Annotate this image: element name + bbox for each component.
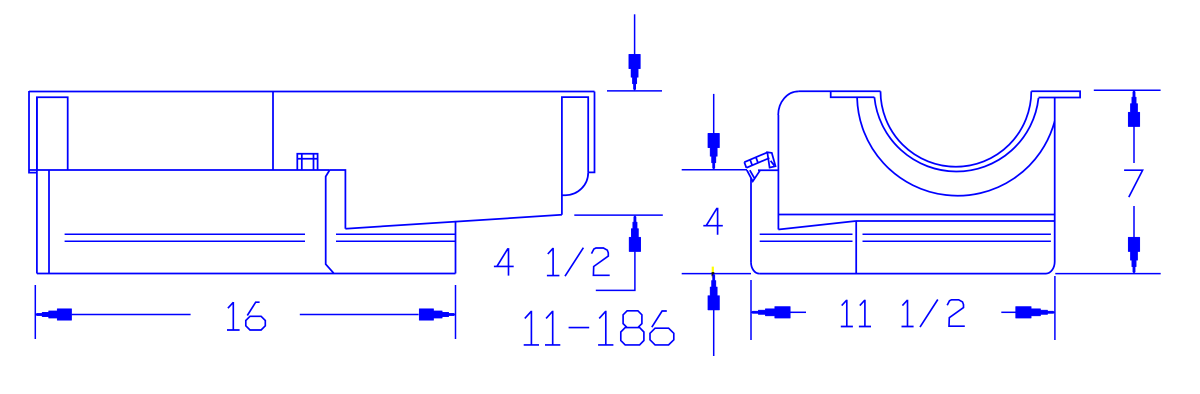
right view: left edge lower xyxy=(750,178,752,262)
dim 4: top leader line xyxy=(713,94,715,134)
left view: left end wall (inner rectangle) xyxy=(37,97,68,170)
right view: rail left lower xyxy=(760,240,853,242)
dim 4: bottom arrow xyxy=(708,274,720,310)
right view: bore arc xyxy=(881,91,1032,166)
dim 4 1/2: text xyxy=(494,248,610,277)
dim 4: bottom leader line xyxy=(713,310,715,357)
dim 16: left extension line xyxy=(34,285,36,339)
left view: sump right wall xyxy=(455,221,457,274)
right view: rim arc xyxy=(874,97,1038,171)
right view: right tab xyxy=(1031,91,1080,97)
dim 7: top arrow xyxy=(1128,91,1140,127)
right view: bottom-left corner arc xyxy=(751,262,759,273)
left view: gasket rail right lower xyxy=(336,240,456,242)
dim 4: top reference line xyxy=(682,169,747,171)
highlight tick yellow xyxy=(712,267,714,278)
left view: flange bottom line xyxy=(29,169,330,171)
dim 16: left arrow xyxy=(36,309,72,321)
highlight tick dark overlap xyxy=(712,272,715,276)
dim 7: bottom arrow xyxy=(1128,237,1140,273)
dim 16: left dimension line xyxy=(72,314,191,316)
left view: right end outer edge xyxy=(588,92,594,173)
dim 4 1/2: top reference line xyxy=(607,90,662,92)
left view: left body wall inner line xyxy=(48,170,50,274)
left view: drain plug on flange xyxy=(297,154,317,170)
right view: drain plug body xyxy=(744,152,769,167)
right view: top flange line left xyxy=(799,90,881,92)
dim 11 1/2: left extension line xyxy=(750,280,752,340)
dim 11 1/2: right extension line xyxy=(1054,276,1056,340)
part number 11-186 text xyxy=(524,311,674,345)
dim 4: bottom reference line xyxy=(682,273,751,275)
left view: right end wall inner rectangle xyxy=(562,97,588,215)
dim 4: top arrow xyxy=(708,133,720,169)
dim 4 1/2: top arrow xyxy=(629,54,641,90)
right view: cradle outer arc xyxy=(857,98,1055,196)
right view: drain plug head xyxy=(767,152,775,167)
dim 7: lower dimension line xyxy=(1133,206,1135,238)
dim 16: right arrow xyxy=(419,309,455,321)
dim 11 1/2: left tail line xyxy=(790,311,806,313)
right view: body divider xyxy=(855,221,857,274)
dim 4 1/2: bottom arrow xyxy=(629,216,641,252)
dim 4 1/2: top leader line xyxy=(634,14,636,56)
right view: right edge with bottom corner arc xyxy=(1046,98,1055,274)
right view: rail right lower xyxy=(863,240,1051,242)
left view: flange mid divider xyxy=(272,92,274,171)
right view: rail left upper xyxy=(760,233,853,235)
dim 11 1/2: text xyxy=(841,300,965,328)
right view: top-left corner arc xyxy=(778,91,798,115)
dim 7: bottom reference line xyxy=(1055,273,1160,275)
dim 11 1/2: right arrow xyxy=(1016,307,1055,319)
left view: top flange line xyxy=(29,91,595,93)
left view: sloped floor line xyxy=(345,215,562,229)
right view: left tab step xyxy=(831,91,875,97)
dim 16: right extension line xyxy=(455,285,457,339)
left view: gasket rail left lower xyxy=(65,240,305,242)
left view: gasket rail left upper xyxy=(65,233,305,235)
dim 11 1/2: right tail line xyxy=(1001,311,1016,313)
dim 16: text 16 xyxy=(227,302,265,330)
left view: sump step column xyxy=(326,170,346,273)
right view: ledge under plug xyxy=(758,169,778,171)
right view: drain plug boss below xyxy=(747,170,760,181)
dim 4: text xyxy=(703,208,723,235)
right view: rail right upper xyxy=(863,233,1051,235)
left view: gasket rail right upper xyxy=(336,233,456,235)
right view: bottom line xyxy=(759,273,1046,275)
dim 7: text xyxy=(1124,170,1143,197)
right view: floor slope line xyxy=(778,221,856,230)
right view: floor line xyxy=(856,220,1055,222)
left view: right end corner arc xyxy=(562,173,588,196)
dim 4 1/2: bottom leader line xyxy=(596,252,635,291)
dim 4 1/2: bottom reference line xyxy=(574,214,663,216)
dim 16: right dimension line xyxy=(300,314,419,316)
left view: bottom line xyxy=(37,273,456,275)
right view: left edge upper xyxy=(777,115,779,230)
right view: ledge line xyxy=(778,214,1054,216)
dim 7: upper dimension line xyxy=(1133,126,1135,163)
dim 7: top reference line xyxy=(1094,89,1161,91)
dim 11 1/2: left arrow xyxy=(751,307,790,319)
left view: left body wall outer line xyxy=(36,97,38,273)
left view: left outer edge with bottom step xyxy=(29,91,36,173)
